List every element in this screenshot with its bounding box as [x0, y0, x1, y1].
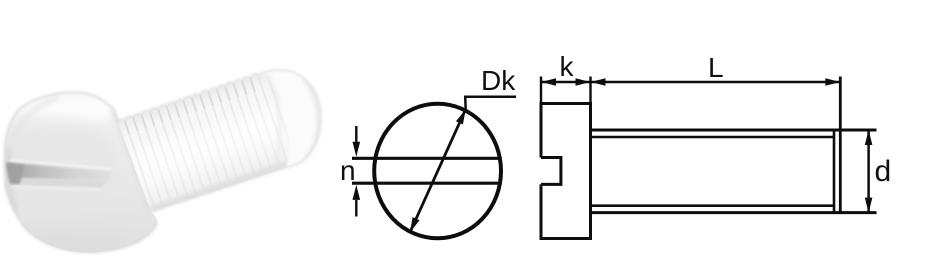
thread core top line: [591, 136, 835, 139]
shank body fill: [100, 50, 340, 230]
k and L dimension line: [541, 81, 840, 84]
arrowhead L right: [825, 78, 840, 86]
thread crest ticks near top edge: [124, 77, 255, 134]
n dimension lower arrow line: [355, 200, 357, 217]
arrowhead d bottom: [865, 198, 873, 213]
slot top line with left extension tick: [352, 157, 500, 160]
thread core bottom line: [591, 204, 835, 207]
slot lower lip highlight: [11, 187, 100, 191]
svg-text:d: d: [875, 155, 892, 188]
k left extension line: [540, 77, 542, 104]
arrowhead k left: [541, 78, 556, 86]
d dimension line: [867, 130, 870, 213]
leader line to Dk label: [465, 97, 516, 109]
arrowhead L left: [591, 78, 606, 86]
arrowhead d top: [865, 130, 873, 145]
shank silhouette soft edge: [116, 70, 321, 213]
arrowhead diagonal lower: [410, 217, 420, 232]
slot bottom line with left extension tick: [352, 182, 500, 185]
thread chamfer line: [833, 130, 836, 213]
svg-text:L: L: [708, 52, 724, 83]
arrowhead n bottom (up): [353, 185, 361, 200]
shank bottom inner shadow: [150, 160, 300, 211]
head body fill: [0, 85, 165, 260]
shaft outer top line + d extension: [591, 129, 877, 132]
slot floor (dark band): [7, 163, 113, 182]
tip chamfer ring shade: [266, 74, 280, 165]
tip right rim shade: [304, 79, 319, 162]
svg-text:n: n: [340, 155, 356, 186]
slot left notch interior: [6, 164, 24, 185]
soft white fade over lower threads: [140, 118, 300, 170]
n dimension upper arrow line: [355, 126, 357, 146]
smooth tip cap over threads: [261, 69, 322, 168]
head upper-left crease shade: [12, 98, 58, 138]
head right junction shade: [113, 109, 152, 213]
slot notch in head: [541, 158, 561, 185]
thread groove lines: [124, 72, 302, 226]
arrowhead diagonal upper: [456, 109, 466, 124]
k/L shared extension line: [589, 77, 591, 104]
slot upper lip bright edge: [10, 160, 112, 169]
arrowhead k right: [576, 78, 591, 86]
arrowhead n top (down): [353, 142, 361, 157]
diagonal diameter dimension line Dk: [410, 109, 466, 232]
head front view circle Dk: [374, 104, 501, 239]
head silhouette soft edge: [4, 92, 157, 252]
svg-text:Dk: Dk: [481, 65, 516, 96]
photo: screw shank: [100, 50, 340, 230]
head bottom shade: [0, 231, 124, 261]
head left rim shade: [8, 148, 16, 214]
head outline (side view): [541, 104, 591, 239]
shaft end face / L extension line: [839, 77, 842, 213]
slot lower lip shadow band: [9, 178, 108, 188]
svg-text:k: k: [560, 51, 575, 82]
shaft outer bottom line + d extension: [591, 211, 877, 214]
head cylinder top highlight: [22, 96, 130, 122]
head face grey tone: [0, 118, 114, 198]
photo: screw head (cheese head, front-left view): [0, 85, 165, 261]
